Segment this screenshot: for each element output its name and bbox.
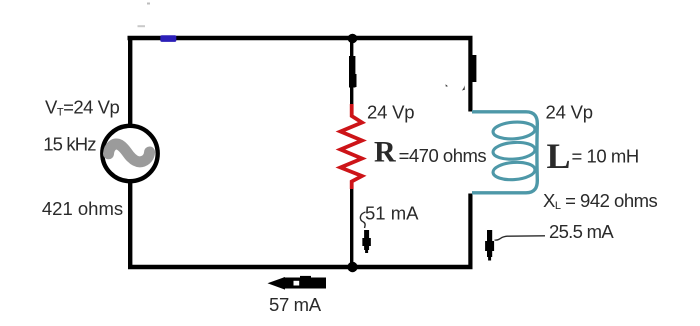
- inductor loop 2: [492, 141, 535, 160]
- arrow 25.5 mA: [487, 230, 492, 257]
- wire left vertical upper: [128, 36, 132, 126]
- inductor L coil spine: [472, 112, 537, 193]
- leader 51 mA: [360, 212, 365, 228]
- svg-text:= 10 mH: = 10 mH: [572, 146, 639, 167]
- resistor R: [341, 104, 363, 189]
- ac source V1: [102, 126, 157, 181]
- wire right branch lower: [468, 194, 472, 268]
- leader 25.5 mA: [495, 236, 546, 240]
- wire top: [128, 36, 473, 40]
- svg-text:R: R: [374, 136, 396, 169]
- svg-text:24 Vp: 24 Vp: [367, 102, 414, 123]
- svg-text:421 ohms: 421 ohms: [42, 198, 123, 219]
- svg-text:L: L: [547, 136, 571, 176]
- svg-text:=470 ohms: =470 ohms: [399, 145, 487, 166]
- wire right branch upper: [468, 36, 472, 112]
- inductor loop 3: [492, 161, 535, 181]
- svg-text:XL = 942 ohms: XL = 942 ohms: [543, 190, 658, 212]
- svg-text:24 Vp: 24 Vp: [546, 102, 593, 123]
- arrow 57 mA: [283, 278, 326, 289]
- sine symbol: [109, 144, 150, 162]
- arrow 51 mA: [364, 230, 369, 250]
- svg-text:VT=24 Vp: VT=24 Vp: [45, 96, 119, 118]
- wire left vertical lower: [128, 181, 132, 269]
- svg-text:57 mA: 57 mA: [269, 294, 322, 315]
- inductor loop 1: [492, 121, 535, 140]
- wire middle branch upper: [350, 38, 353, 105]
- svg-text:51 mA: 51 mA: [365, 203, 419, 224]
- svg-text:25.5 mA: 25.5 mA: [549, 221, 614, 242]
- node junction bottom: [347, 262, 357, 272]
- blue mark on top wire: [160, 35, 176, 42]
- wire middle branch lower: [350, 188, 353, 267]
- speck marks: [138, 25, 146, 27]
- wire bottom: [128, 265, 473, 269]
- current stroke on L branch: [470, 55, 476, 82]
- svg-text:15 kHz: 15 kHz: [43, 133, 96, 154]
- node junction top: [348, 34, 358, 44]
- current stroke on R branch: [349, 56, 355, 88]
